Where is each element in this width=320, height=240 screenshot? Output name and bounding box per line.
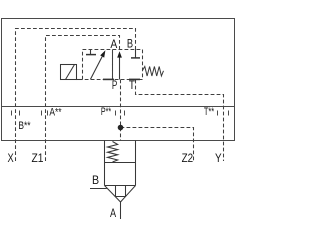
cartridge seat line: [105, 185, 136, 187]
svg-text:B: B: [127, 37, 133, 51]
cover plate outline (solid frame): [2, 19, 235, 141]
port ticks P**: [115, 111, 117, 116]
port ticks B**: [11, 111, 13, 116]
plate interface line: [1, 106, 235, 108]
svg-text:P**: P**: [101, 106, 112, 118]
port line B (cartridge): [90, 188, 107, 190]
svg-text:T: T: [129, 78, 136, 92]
cartridge body right edge: [135, 141, 137, 186]
svg-text:P: P: [112, 78, 117, 92]
pilot valve position square right (dashed): [113, 50, 143, 80]
valve blocked port T (bar on bottom edge): [129, 78, 140, 80]
svg-text:X: X: [8, 151, 14, 165]
cartridge poppet cone left: [105, 186, 121, 203]
svg-text:Z1: Z1: [32, 151, 44, 165]
valve left position blocked port bar (on bottom edge): [103, 78, 114, 80]
pilot line P (dashed: valve P down through P** port to node and spring chamber): [120, 80, 122, 141]
pilot valve position square left (dashed): [83, 50, 113, 80]
wire solenoid to valve: [77, 79, 83, 81]
pilot line T (dashed: valve T down, across, down to Y port): [136, 80, 224, 161]
svg-text:A: A: [110, 37, 117, 51]
svg-text:A: A: [110, 206, 117, 220]
pilot line X (dashed: X port up, across top, down to valve B port): [16, 29, 136, 162]
pilot line Z1 (dashed: Z1 port up, across, down to valve A port): [46, 36, 120, 162]
svg-text:Z2: Z2: [182, 151, 194, 165]
cartridge poppet cone right: [121, 186, 136, 203]
svg-text:Y: Y: [215, 151, 222, 165]
cartridge poppet stem: [116, 186, 126, 197]
valve blocked port B (stub and bar): [135, 50, 137, 58]
valve left position blocked port (stub and bar): [90, 50, 92, 55]
svg-text:T**: T**: [204, 106, 215, 118]
solenoid actuator: [61, 65, 77, 80]
port line A (cartridge): [120, 202, 122, 219]
pilot line Z2 (dashed: from node right, down to Z2 port): [121, 128, 194, 162]
svg-text:B: B: [92, 173, 99, 187]
port ticks T**: [217, 111, 219, 116]
valve left position flow path (diagonal arrow): [90, 57, 102, 80]
junction node: [118, 125, 124, 131]
valve flow path P to A (solid arrow up): [119, 55, 121, 80]
cartridge closing spring: [108, 142, 118, 163]
valve return spring: [143, 67, 164, 77]
port ticks A**: [41, 111, 43, 116]
cartridge spring chamber bottom line: [105, 162, 136, 164]
svg-text:B**: B**: [18, 120, 31, 132]
svg-text:A**: A**: [49, 107, 62, 119]
cartridge body left edge: [104, 141, 106, 186]
